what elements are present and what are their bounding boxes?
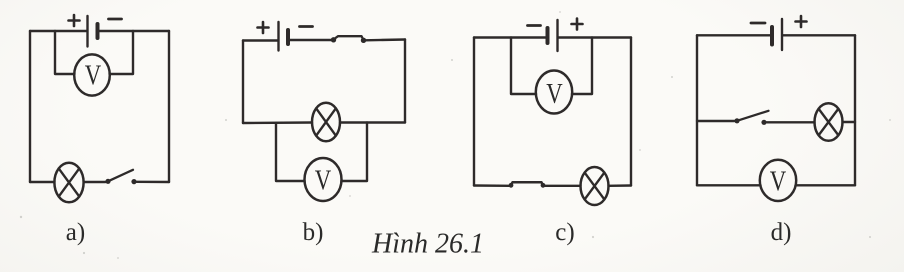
label + of battery B4 — [796, 16, 807, 27]
wire: a switch to corner — [137, 181, 170, 184]
voltmeter V (b) — [305, 158, 342, 201]
switch K (a) open — [105, 179, 110, 184]
wire: a bottom-left to lamp — [30, 181, 55, 183]
wire: b voltmeter branch right — [342, 123, 368, 182]
lamp X4 (d) — [815, 103, 843, 141]
wire: a top-right segment — [99, 30, 170, 32]
voltmeter V (c) — [536, 71, 572, 114]
svg-text:V: V — [546, 78, 563, 110]
wire: c lamp to corner — [609, 184, 632, 187]
wire: a right side — [168, 31, 170, 182]
wire: d top-right segment — [783, 34, 855, 36]
label + of battery B1 — [69, 15, 80, 26]
battery B3 long plate (+) — [556, 20, 558, 51]
wire: b bottom-left to lamp — [243, 121, 312, 124]
label + of battery B2 — [258, 22, 269, 33]
wire: c left side — [473, 38, 475, 186]
label - of battery B4 — [751, 22, 765, 25]
wire: b top-right segment — [365, 38, 405, 41]
label - of battery B2 — [300, 25, 313, 28]
svg-text:V: V — [85, 59, 102, 91]
label + of battery B3 — [572, 19, 583, 30]
wire: d bottom-left to voltmeter — [697, 184, 761, 186]
wire: b lamp to corner — [340, 121, 405, 123]
switch K (c) closed bump — [509, 183, 514, 188]
wire: d top-left segment — [697, 34, 771, 36]
wire: b left side — [242, 41, 244, 124]
voltmeter V (a) — [74, 54, 110, 95]
switch K (b) closed — [331, 37, 336, 42]
wire: c top-right segment — [559, 36, 632, 38]
svg-text:c): c) — [555, 219, 574, 246]
wire: d middle-left to switch — [697, 120, 735, 122]
svg-text:d): d) — [771, 219, 792, 246]
wire: c voltmeter branch right — [572, 38, 592, 95]
battery B3 short plate (-) — [546, 28, 550, 43]
lamp X3 (c) — [581, 167, 609, 205]
battery B4 long plate (+) — [781, 19, 783, 50]
battery B2 long plate (+) — [277, 22, 279, 51]
label - of battery B1 — [109, 18, 122, 21]
switch K (d) open — [734, 118, 739, 123]
wire: c switch to lamp — [543, 185, 581, 187]
wire: b right side — [404, 40, 406, 123]
svg-text:V: V — [315, 164, 332, 196]
voltmeter V (d) — [760, 160, 796, 201]
wire: a voltmeter branch left — [55, 31, 75, 74]
svg-text:V: V — [770, 165, 787, 197]
wire: d right side — [854, 35, 856, 185]
svg-text:Hình 26.1: Hình 26.1 — [371, 229, 484, 260]
battery B1 long plate (+) — [86, 16, 88, 47]
battery B2 short plate (-) — [286, 30, 290, 44]
label - of battery B3 — [528, 24, 541, 27]
lamp X2 (b) — [312, 103, 340, 142]
wire: a voltmeter branch right — [110, 31, 134, 74]
wire: b top-left segment — [243, 39, 278, 41]
svg-text:b): b) — [303, 219, 324, 246]
wire: d lamp to right side — [843, 121, 856, 123]
wire: b top middle segment — [289, 39, 331, 41]
wire: a left side — [29, 31, 31, 182]
lamp X1 (a) — [54, 163, 83, 203]
wire: d switch to lamp — [767, 121, 815, 123]
battery B4 short plate (-) — [770, 27, 774, 45]
wire: d left side — [696, 35, 698, 185]
wire: a top-left segment — [30, 30, 87, 32]
svg-text:a): a) — [66, 219, 85, 246]
wire: d voltmeter to corner — [796, 184, 856, 186]
wire: c right side — [630, 38, 632, 186]
battery B1 short plate (-) — [96, 24, 100, 38]
wire: a lamp to switch — [84, 181, 106, 183]
wire: c voltmeter branch left — [511, 38, 536, 95]
wire: b voltmeter branch left — [276, 123, 305, 181]
wire: c top-left segment — [474, 36, 547, 38]
wire: c bottom-left segment — [474, 184, 509, 187]
